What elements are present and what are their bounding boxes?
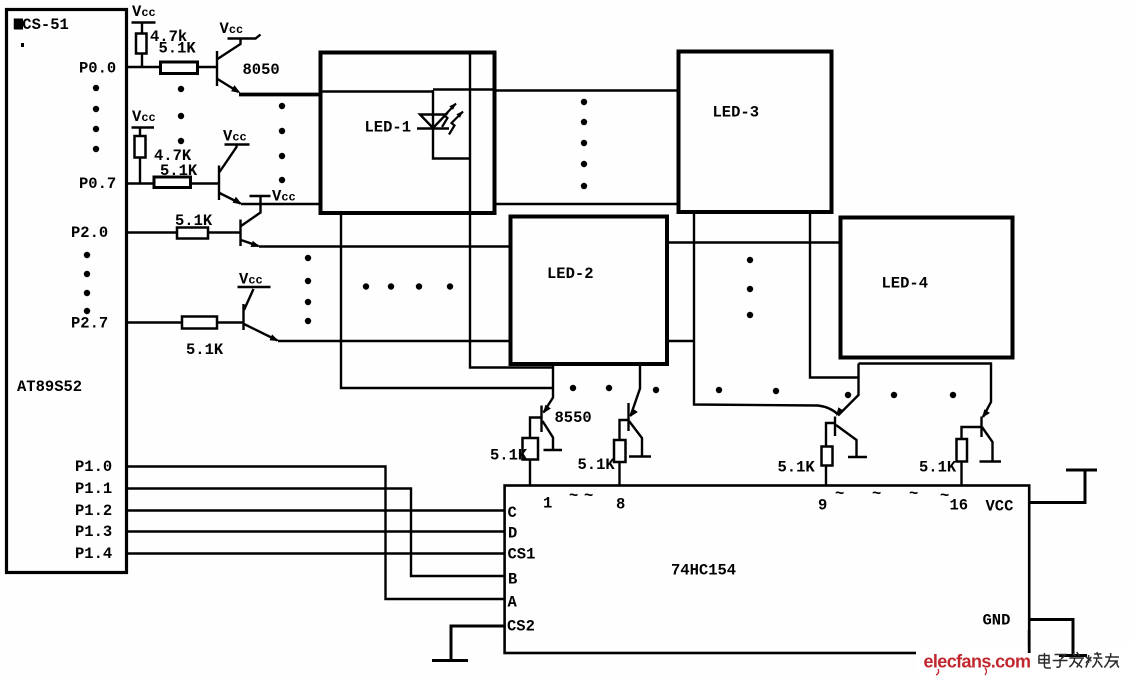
svg-text:Vcc: Vcc — [132, 3, 156, 21]
svg-text:LED-1: LED-1 — [365, 119, 412, 137]
svg-text:P2.0: P2.0 — [71, 224, 108, 242]
svg-text:P1.1: P1.1 — [75, 480, 112, 498]
svg-text:P2.7: P2.7 — [71, 315, 108, 333]
svg-text:B: B — [508, 571, 517, 589]
svg-text:5.1K: 5.1K — [490, 447, 528, 465]
svg-text:P1.3: P1.3 — [75, 523, 112, 541]
svg-text:AT89S52: AT89S52 — [17, 378, 82, 396]
svg-text:Vcc: Vcc — [223, 128, 247, 146]
svg-text:VCC: VCC — [986, 498, 1014, 516]
svg-text:~: ~ — [569, 487, 578, 505]
svg-text:GND: GND — [983, 612, 1011, 630]
svg-text:CS2: CS2 — [507, 618, 535, 636]
svg-text:P1.4: P1.4 — [75, 545, 112, 563]
svg-text:5.1K: 5.1K — [175, 212, 213, 230]
svg-text:CS1: CS1 — [508, 546, 536, 564]
svg-text:5.1K: 5.1K — [160, 162, 198, 180]
svg-text:P0.7: P0.7 — [79, 175, 116, 193]
svg-text:D: D — [508, 525, 517, 543]
svg-text:P0.0: P0.0 — [79, 60, 116, 78]
svg-text:8: 8 — [616, 496, 625, 514]
svg-text:elecfans.com: elecfans.com — [924, 652, 1031, 672]
svg-text:LED-3: LED-3 — [713, 104, 760, 122]
svg-text:5.1K: 5.1K — [186, 341, 224, 359]
svg-text:P1.0: P1.0 — [75, 458, 112, 476]
svg-text:Vcc: Vcc — [132, 108, 156, 126]
svg-text:5.1K: 5.1K — [578, 456, 616, 474]
svg-text:~: ~ — [584, 487, 593, 505]
svg-text:LED-2: LED-2 — [547, 265, 594, 283]
svg-text:9: 9 — [818, 497, 827, 515]
svg-text:~: ~ — [872, 485, 881, 503]
svg-text:8050: 8050 — [243, 61, 280, 79]
svg-text:5.1K: 5.1K — [778, 459, 816, 477]
svg-text:1: 1 — [543, 495, 552, 513]
svg-text:~: ~ — [835, 485, 844, 503]
svg-text:5.1K: 5.1K — [159, 40, 197, 58]
svg-text:P1.2: P1.2 — [75, 502, 112, 520]
svg-text:A: A — [508, 594, 518, 612]
svg-text:~: ~ — [940, 487, 949, 505]
svg-text:74HC154: 74HC154 — [671, 562, 736, 580]
svg-text:8550: 8550 — [555, 409, 592, 427]
svg-text:5.1K: 5.1K — [919, 459, 957, 477]
svg-text:16: 16 — [950, 497, 969, 515]
svg-text:LED-4: LED-4 — [882, 275, 929, 293]
svg-text:Vcc: Vcc — [272, 188, 296, 206]
svg-text:C: C — [508, 504, 517, 522]
svg-text:~: ~ — [909, 485, 918, 503]
svg-text:Vcc: Vcc — [239, 271, 263, 289]
svg-text:Vcc: Vcc — [220, 20, 244, 38]
